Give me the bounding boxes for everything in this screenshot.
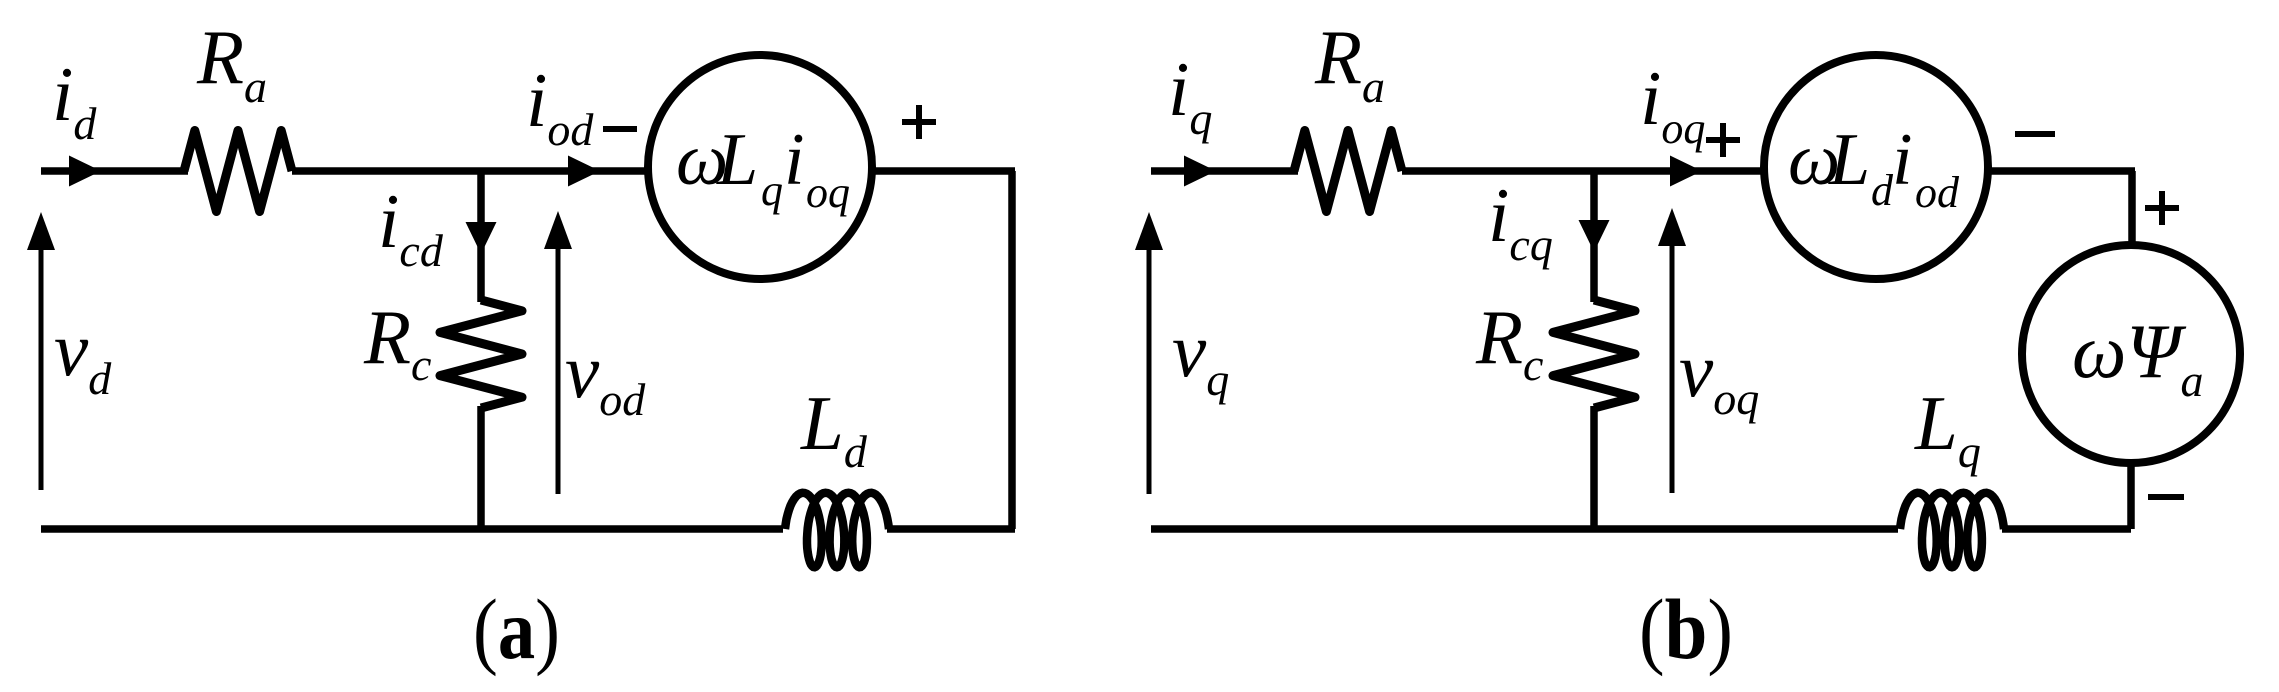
wire Rc branch lower (a) xyxy=(477,406,485,529)
svg-text:i: i xyxy=(1892,119,1913,201)
source U2 circle omega-Ld-iod xyxy=(1764,55,1988,279)
source U3 circle omega-Psi-a xyxy=(2022,245,2240,463)
plus sign at source right (a) xyxy=(902,119,936,125)
resistor R_a (a) xyxy=(184,131,292,212)
voltage arrow v_d xyxy=(39,246,44,490)
wire bottom-right (a) xyxy=(887,525,1015,533)
voltage arrow v_q xyxy=(1147,246,1152,494)
arrow i_cq current xyxy=(1579,220,1610,252)
voltage arrow v_oq xyxy=(1670,243,1675,493)
arrow i_d current xyxy=(69,156,101,187)
svg-text:oq: oq xyxy=(806,168,850,217)
inductor L_d coil xyxy=(785,493,889,567)
arrow i_oq current xyxy=(1670,156,1702,187)
svg-text:d: d xyxy=(1871,166,1894,215)
wire Rc branch lower (b) xyxy=(1590,406,1598,529)
voltage arrow v_od xyxy=(556,246,561,494)
minus sign at source left (a) xyxy=(603,126,637,132)
wire top-middle segment (a) xyxy=(292,167,649,175)
wire right vertical (a) xyxy=(1008,171,1016,529)
wire right vertical upper (b) xyxy=(2128,171,2136,247)
resistor R_c (a) xyxy=(440,300,522,408)
arrow i_cd current xyxy=(466,222,497,254)
wire bottom-left (a) xyxy=(41,525,783,533)
svg-text:L: L xyxy=(716,119,758,201)
inductor L_q coil xyxy=(1900,493,2004,567)
svg-text:L: L xyxy=(1828,119,1870,201)
wire top-left segment (b) xyxy=(1151,167,1298,175)
wire circle to right corner (a) xyxy=(872,167,1015,175)
wire right vertical lower (b) xyxy=(2127,461,2135,529)
source U1 circle omega-Lq-ioq xyxy=(648,55,872,279)
wire Rc branch upper (a) xyxy=(477,171,485,302)
resistor R_a (b) xyxy=(1294,131,1402,212)
wire bottom-right (b) xyxy=(2002,525,2131,533)
wire bottom-left (b) xyxy=(1151,525,1898,533)
arrow i_od current xyxy=(568,156,600,187)
svg-text:i: i xyxy=(784,119,805,201)
svg-text:q: q xyxy=(761,166,783,215)
wire top-middle segment (b) xyxy=(1402,167,1764,175)
minus sign at psi source bottom (b) xyxy=(2148,494,2184,500)
wire circle to right corner (b) xyxy=(1988,167,2135,175)
wire Rc branch upper (b) xyxy=(1590,171,1598,302)
plus sign at source left (b) xyxy=(1706,137,1740,143)
resistor R_c (b) xyxy=(1553,300,1635,408)
wire top-left segment (a) xyxy=(41,167,188,175)
svg-text:od: od xyxy=(1915,168,1960,217)
plus sign at psi source top (b) xyxy=(2145,205,2179,211)
arrow i_q current xyxy=(1184,156,1216,187)
minus sign at source right (b) xyxy=(2015,131,2055,137)
svg-text:(a): (a) xyxy=(473,581,560,677)
svg-text:(b): (b) xyxy=(1639,581,1733,677)
